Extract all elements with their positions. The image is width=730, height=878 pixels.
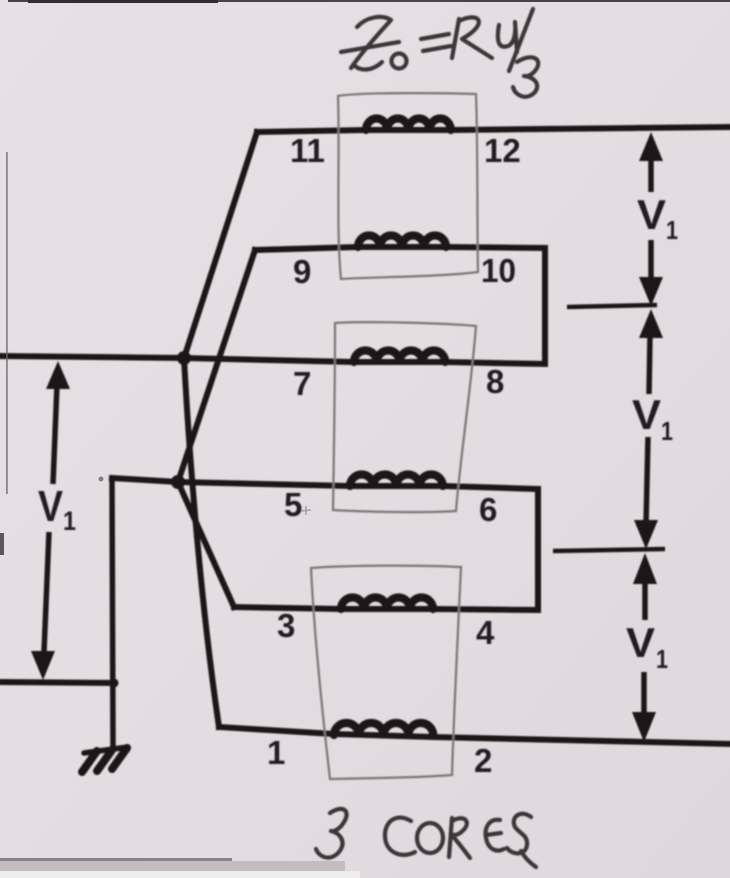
wire: vertical from 6-row down to 4-row: [535, 489, 541, 610]
winding T2 lower (5-6): [350, 475, 443, 487]
wire: row 3-4: [234, 607, 538, 610]
label V1 top right: [637, 191, 678, 245]
label V1 left: [38, 482, 76, 536]
photo edges (decorative): [8, 0, 730, 2]
wire: left ground stem vertical: [112, 478, 113, 745]
svg-text:5: 5: [284, 486, 302, 523]
ground: [82, 747, 128, 772]
winding T1 upper (11-12): [366, 118, 451, 130]
winding T1 lower (9-10): [358, 236, 446, 247]
junction node at 5: [171, 475, 185, 489]
core box T3: [311, 566, 461, 779]
svg-text:10: 10: [481, 252, 516, 289]
svg-text:V: V: [38, 482, 64, 531]
wire: top row 11-12 to right edge: [257, 127, 730, 132]
svg-text:11: 11: [290, 132, 325, 169]
svg-text:4: 4: [476, 614, 495, 651]
wire: bottom-left horizontal: [0, 682, 114, 683]
svg-text:1: 1: [63, 506, 76, 536]
svg-text:7: 7: [293, 365, 311, 402]
winding T3 upper (3-4): [341, 598, 433, 610]
svg-text:V: V: [626, 619, 655, 666]
winding T3 lower (1-2): [334, 723, 433, 735]
wire: main input row 7-8: [0, 356, 545, 364]
tick mark lower right: [553, 549, 665, 551]
stray pencil plus mark: [301, 506, 311, 515]
core box T1: [338, 93, 478, 279]
svg-text:1: 1: [666, 215, 678, 245]
svg-text:1: 1: [661, 416, 673, 446]
svg-text:9: 9: [293, 253, 311, 290]
handwritten formula Zo = RL/3: [341, 9, 538, 97]
dimension arrow V1 left: [31, 361, 70, 680]
wire: diagonal D junction5 to corner3: [178, 482, 234, 607]
wire: row 9-10: [255, 247, 545, 250]
label V1 bottom right: [626, 619, 668, 674]
wire: vertical from 10-row down to 8-row: [542, 248, 548, 363]
junction node at 7: [177, 351, 191, 365]
svg-text:12: 12: [484, 132, 521, 169]
svg-text:V: V: [637, 191, 666, 238]
wire: diagonal A corner11 to junction7: [184, 132, 257, 358]
tick mark upper right: [567, 305, 657, 307]
dimension arrow V1 top right: [639, 132, 663, 306]
svg-text:8: 8: [486, 363, 504, 400]
wire: diagonal B corner9 to junction5: [178, 250, 255, 482]
wire: diagonal C junction7 to corner1: [184, 358, 219, 727]
core box T2: [333, 322, 476, 512]
winding T2 upper (7-8): [354, 351, 445, 363]
svg-text:V: V: [632, 391, 661, 438]
main ink group: [0, 118, 730, 745]
svg-text:1: 1: [267, 734, 285, 771]
handwritten caption 3 CORES: [316, 809, 536, 867]
svg-text:3: 3: [277, 607, 295, 644]
wire: row 5-6: [112, 478, 538, 489]
svg-text:2: 2: [474, 742, 492, 779]
svg-text:1: 1: [656, 644, 668, 674]
dimension arrow V1 bottom right: [632, 553, 657, 742]
label V1 middle right: [632, 391, 673, 446]
dimension arrow V1 middle right: [634, 309, 663, 549]
stray pencil dot left: [99, 477, 104, 482]
wire: bottom row 1-2 to right edge: [219, 727, 730, 744]
svg-text:6: 6: [479, 491, 497, 528]
junction node bottom-left: [110, 679, 119, 688]
